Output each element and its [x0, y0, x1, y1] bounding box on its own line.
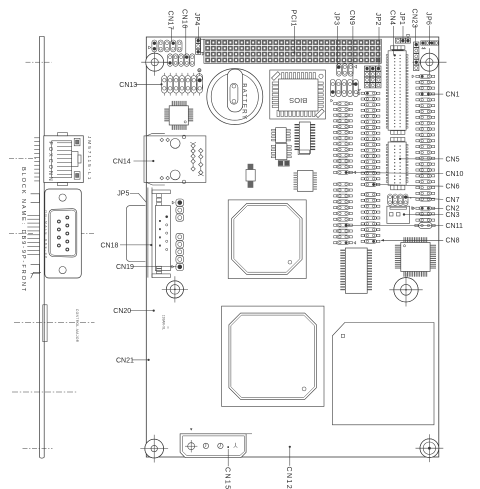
svg-text:JP6: JP6: [424, 12, 431, 25]
leader CN21: [132, 359, 148, 361]
centerline: [12, 391, 78, 393]
svg-text:CN8: CN8: [446, 238, 460, 245]
crystal Y1: [248, 164, 254, 170]
mounting hole bottom-left: [145, 439, 164, 458]
connector CN17: [149, 46, 151, 49]
pin header column B group 1: [358, 89, 361, 91]
leader CN10: [346, 173, 443, 174]
connector CN15: [180, 434, 246, 458]
svg-text:JM57115-L1: JM57115-L1: [86, 136, 92, 181]
jumper JP2: [365, 66, 370, 71]
leader CN8: [381, 239, 443, 241]
centerline: [14, 322, 95, 324]
DB9 D-shell: [49, 209, 77, 257]
svg-text:CN14: CN14: [113, 159, 131, 166]
connector CN7: [388, 194, 393, 205]
centerline: [23, 447, 53, 449]
PLCC pins top: [282, 73, 284, 79]
svg-text:CN1: CN1: [446, 92, 460, 99]
centerline: [9, 233, 33, 235]
svg-text:BATTERY: BATTERY: [240, 83, 247, 120]
leader CN7: [406, 197, 443, 199]
RJ45 jack CN14 front view: [44, 136, 84, 183]
mounting hole mid-right: [394, 278, 418, 302]
leader CN14: [134, 160, 153, 162]
leader CN19: [134, 266, 177, 268]
DB9 pins: [66, 216, 69, 219]
svg-text:JP1: JP1: [398, 12, 405, 25]
svg-text:CN3: CN3: [446, 212, 460, 219]
leader CN1: [428, 93, 443, 95]
svg-text:CN16: CN16: [181, 9, 188, 29]
svg-text:193AR-XL: 193AR-XL: [161, 315, 165, 330]
connector CN2 pads: [413, 207, 415, 210]
leader CN6: [374, 184, 444, 186]
DB9 bottom hook: [31, 272, 41, 278]
jumper JP6: [421, 41, 425, 45]
PLCC pins left: [272, 82, 278, 84]
bracket strip: [39, 36, 41, 457]
bracket tab: [43, 305, 47, 342]
svg-text:JP4: JP4: [193, 13, 200, 26]
PLCC corner arrow top-left: [272, 72, 281, 81]
connector CN5: [391, 138, 405, 142]
connector CN4: [391, 46, 405, 50]
leader JP5: [130, 193, 147, 202]
leader CN3: [404, 214, 443, 216]
capacitor pair: [279, 161, 284, 166]
connector CN14 footprint: [144, 136, 206, 183]
PGA socket U9: [228, 200, 306, 279]
RJ45 inner contacts: [52, 141, 72, 178]
module U11 outline: [332, 323, 434, 425]
leader CN2: [432, 207, 443, 209]
SOIC U7: [299, 122, 310, 153]
pin header column A group 2: [334, 183, 337, 185]
svg-text:PCI1: PCI1: [289, 10, 296, 27]
centerline: [26, 61, 52, 63]
svg-text:CN23: CN23: [411, 9, 418, 29]
SOIC U8: [297, 171, 313, 192]
connector CN11 pad: [419, 222, 432, 228]
DB9 connector front view: [45, 189, 82, 278]
PLCC pins right: [317, 82, 323, 84]
mounting hole mid-left: [166, 281, 183, 298]
PLCC corner circle: [319, 74, 323, 78]
RJ45 latch: [72, 152, 78, 167]
mounting hole top-right: [420, 53, 438, 71]
svg-text:CN4: CN4: [388, 10, 395, 25]
PLCC pins bottom: [277, 110, 279, 116]
QFP U3 (CN8 area): [401, 243, 430, 272]
CN14 diode column 2: [200, 148, 202, 175]
svg-text:FOXCONN: FOXCONN: [47, 142, 53, 183]
svg-text:JP5: JP5: [117, 191, 129, 198]
svg-text:HD-MALE DB9-9P: HD-MALE DB9-9P: [44, 211, 48, 260]
connector CN23: [414, 42, 419, 47]
svg-text:JP3: JP3: [333, 12, 340, 25]
PLCC corner arrow bottom-right: [316, 109, 325, 118]
leader CN20: [130, 310, 153, 312]
CN15 polarity mark: [190, 428, 192, 430]
DB9 mount finger top: [31, 194, 40, 203]
svg-text:JP2: JP2: [374, 13, 381, 26]
SOIC U5: [276, 128, 287, 143]
PCI1 slot connector: [200, 39, 204, 52]
CN14 diode column 1: [192, 144, 194, 171]
svg-text:CN15: CN15: [223, 467, 230, 489]
connector CN18 shell outline: [126, 206, 145, 262]
svg-text:BLOCK NAME: DB9-9P-FRONT: BLOCK NAME: DB9-9P-FRONT: [20, 167, 26, 293]
CN15 pin 4 mark: [227, 446, 229, 448]
DB9 pins comb: [27, 214, 39, 216]
svg-text:CN17: CN17: [167, 11, 174, 31]
connector CN9: [330, 79, 335, 96]
jumper JP4: [196, 38, 201, 43]
DB9 mount finger bottom: [31, 265, 40, 274]
QFP U10: [222, 306, 324, 406]
pad row: [416, 219, 419, 221]
leader CN12: [289, 446, 291, 448]
leader CN11: [346, 225, 443, 227]
RJ45 pins comb: [34, 137, 40, 139]
pin header column B group 2: [361, 193, 364, 195]
header pads group 1: [172, 201, 174, 204]
connector CN13: [198, 70, 201, 72]
resistor outline: [298, 150, 310, 155]
PCB board outline: [146, 37, 439, 457]
mounting hole bottom-right: [420, 439, 439, 458]
PCI1 key X mark: [376, 58, 381, 63]
svg-text:CN9: CN9: [348, 10, 355, 25]
svg-text:CN10: CN10: [446, 171, 464, 178]
CN15 pin 3: [218, 443, 223, 448]
connector CN16: [168, 54, 173, 67]
CN15 crowfoot: [235, 443, 237, 446]
svg-text:BIOS: BIOS: [289, 96, 307, 105]
pad pair: [198, 69, 201, 72]
CN15 pin 2: [203, 443, 208, 448]
RJ45 mount post: [74, 138, 80, 146]
leader CN15: [227, 449, 229, 466]
connector CN3 box: [387, 206, 410, 223]
svg-text:CN12: CN12: [285, 467, 292, 489]
leader CN13: [136, 83, 161, 85]
svg-text:CN19: CN19: [116, 264, 134, 271]
svg-text:CN20: CN20: [113, 308, 131, 315]
pin header column A group 1: [331, 99, 333, 102]
BIOS PLCC socket U-BIOS: [270, 70, 326, 119]
svg-text:CN21: CN21: [116, 357, 134, 364]
svg-text:CN11: CN11: [446, 223, 463, 230]
svg-text:CN7: CN7: [446, 197, 460, 204]
svg-text:CN6: CN6: [446, 184, 460, 191]
svg-text:CN13: CN13: [119, 82, 137, 89]
battery holder clip: [227, 69, 242, 112]
SOIC U6: [276, 144, 287, 160]
jumper JP1: [395, 38, 400, 43]
connector CN19 pads: [172, 265, 174, 268]
JP1 polarity mark: [406, 34, 409, 36]
svg-text:CONTROL-MAJOR: CONTROL-MAJOR: [75, 309, 79, 343]
BIOS chip body: [279, 79, 319, 111]
centerline: [9, 158, 36, 160]
jumper JP3: [336, 64, 341, 76]
CN15 crosshair pin: [188, 443, 195, 450]
svg-text:CN18: CN18: [101, 242, 119, 249]
svg-text:x: x: [410, 196, 412, 200]
RJ45 mount post: [74, 172, 80, 180]
leader CN18: [120, 244, 151, 246]
mounting hole top-left: [146, 53, 164, 71]
connector CN1 column: [412, 75, 414, 78]
DB9 mounting hole bottom: [59, 267, 66, 274]
DB9 mounting hole top: [59, 194, 66, 201]
QFP U2: [169, 106, 188, 125]
leader CN5: [400, 158, 443, 160]
battery BT1: [207, 69, 263, 125]
SOIC U4: [345, 248, 367, 293]
connector CN18 side view: [147, 188, 149, 278]
svg-text:CN5: CN5: [446, 156, 460, 163]
